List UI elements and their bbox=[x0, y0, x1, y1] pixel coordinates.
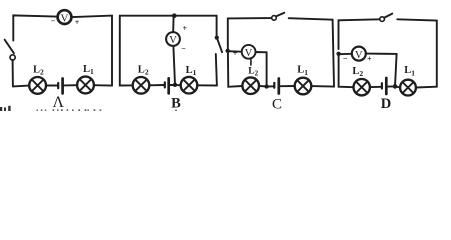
wire C junction to battery bbox=[267, 85, 274, 87]
label + (voltmeter C positive) bbox=[233, 49, 238, 58]
battery (circuit D): short plate bbox=[381, 83, 383, 88]
svg-text:−: − bbox=[343, 54, 348, 63]
wire B right edge lower bbox=[216, 54, 217, 86]
svg-text:L1: L1 bbox=[404, 65, 415, 77]
wire D left edge lower and bottom-left bbox=[339, 55, 354, 87]
wire B voltmeter drop bbox=[172, 16, 174, 32]
svg-text:D: D bbox=[381, 96, 391, 111]
label L1 (circuit A) bbox=[83, 64, 94, 76]
voltmeter V (circuit D) bbox=[352, 47, 366, 61]
node (circuit C left-edge junction) bbox=[226, 49, 230, 53]
svg-text:L1: L1 bbox=[186, 65, 197, 77]
svg-text:+: + bbox=[75, 18, 80, 27]
svg-text:V: V bbox=[355, 50, 363, 61]
svg-text:L1: L1 bbox=[83, 64, 94, 76]
wire B junction to L1 bbox=[170, 84, 180, 86]
label L1 (circuit B) bbox=[186, 65, 197, 77]
wire D top-right segment and right edge bbox=[397, 19, 437, 86]
svg-text:V: V bbox=[169, 35, 177, 46]
wire C top-right segment and right edge bbox=[289, 18, 334, 86]
wire D junction to voltmeter bbox=[339, 53, 352, 55]
node (circuit C bottom junction) bbox=[264, 84, 268, 88]
battery (circuit A): short plate bbox=[57, 83, 59, 88]
battery (circuit B): short plate bbox=[164, 82, 166, 87]
wire A between L2 and battery bbox=[46, 85, 58, 87]
svg-text:C: C bbox=[272, 96, 282, 111]
svg-text:−: − bbox=[51, 17, 56, 26]
svg-text:L1: L1 bbox=[297, 65, 308, 77]
wire B top with junction bbox=[120, 16, 217, 40]
svg-text:L2: L2 bbox=[248, 66, 258, 77]
wire A left edge lower bbox=[12, 60, 14, 86]
wire D voltmeter to bottom junction bbox=[366, 54, 396, 87]
switch S (circuit B, open, on right edge) bbox=[215, 36, 222, 53]
label B (circuit letter) bbox=[171, 95, 181, 111]
battery (circuit A): long plate bbox=[61, 79, 64, 94]
switch S (circuit D, open, on top edge) bbox=[380, 14, 392, 22]
lamp L1 (circuit B) bbox=[181, 77, 198, 94]
label D (circuit letter) bbox=[381, 96, 391, 112]
svg-text:+: + bbox=[233, 49, 238, 58]
wire B bottom-right bbox=[197, 84, 217, 86]
lamp L1 (circuit D) bbox=[400, 80, 416, 96]
wire D bottom-right bbox=[416, 86, 437, 89]
wire D battery to junction bbox=[388, 85, 395, 87]
label L1 (circuit C) bbox=[297, 65, 308, 77]
battery (circuit C): long plate bbox=[277, 79, 280, 94]
voltmeter V (circuit C) bbox=[242, 45, 256, 59]
wire A bottom-right bbox=[94, 84, 112, 86]
svg-text:L2: L2 bbox=[352, 66, 363, 78]
label - (voltmeter B negative) bbox=[181, 44, 186, 53]
wire C bottom-right bbox=[311, 85, 334, 88]
label - (voltmeter D negative) bbox=[343, 54, 348, 63]
lamp L2 (circuit B) bbox=[133, 77, 150, 94]
label A (circuit letter) bbox=[53, 94, 65, 111]
svg-text:V: V bbox=[61, 12, 69, 24]
wire C between L2 and junction bbox=[259, 85, 267, 88]
svg-text:+: + bbox=[183, 24, 188, 33]
voltmeter V (circuit A) bbox=[58, 10, 72, 24]
svg-text:+: + bbox=[367, 55, 372, 64]
wire D junction to L1 bbox=[395, 86, 400, 87]
wire A top-right segment and right edge bbox=[73, 16, 112, 86]
svg-text:L2: L2 bbox=[33, 65, 44, 77]
label - (voltmeter A negative) bbox=[51, 17, 56, 26]
label + (voltmeter B positive) bbox=[183, 24, 188, 33]
wire D top-left segment bbox=[339, 19, 380, 49]
battery (circuit B): long plate bbox=[167, 78, 170, 93]
switch S (circuit A, open, on left edge) bbox=[5, 40, 16, 60]
wire C top-left segment bbox=[228, 18, 272, 44]
node (circuit B bottom junction) bbox=[173, 83, 177, 87]
svg-text:V: V bbox=[245, 48, 253, 59]
lamp L1 (circuit A) bbox=[77, 77, 94, 94]
node (circuit B top junction) bbox=[172, 13, 177, 18]
label L2 (circuit B) bbox=[138, 64, 149, 76]
label C (circuit letter) bbox=[272, 96, 282, 112]
wire A top-left segment bbox=[13, 15, 56, 40]
label L2 (circuit D) bbox=[352, 66, 363, 78]
lamp L1 (circuit C) bbox=[295, 78, 312, 95]
svg-text:B: B bbox=[171, 95, 181, 111]
label + (voltmeter D positive) bbox=[367, 55, 372, 64]
label - (voltmeter C negative) bbox=[256, 49, 261, 58]
node (circuit D left-edge junction) bbox=[336, 52, 340, 56]
wire B voltmeter to bottom junction bbox=[173, 46, 175, 84]
wire D between L2 and battery bbox=[370, 86, 382, 88]
svg-text:Λ: Λ bbox=[53, 94, 65, 111]
label L2 (circuit A) bbox=[33, 65, 44, 77]
lamp L2 (circuit C) bbox=[242, 77, 259, 94]
svg-text:L2: L2 bbox=[138, 64, 149, 76]
label L1 (circuit D) bbox=[404, 65, 415, 77]
wire C between battery and L1 bbox=[280, 85, 294, 87]
svg-text:−: − bbox=[181, 44, 186, 53]
lamp L2 (circuit A) bbox=[29, 77, 46, 94]
voltmeter V (circuit B) bbox=[166, 32, 180, 46]
wire B left edge lower and bottom-left bbox=[120, 40, 133, 86]
label L2 (circuit C) bbox=[248, 66, 258, 77]
wire C left edge lower and bottom-left bbox=[228, 44, 242, 87]
switch S (circuit C, open, on top edge) bbox=[272, 13, 285, 20]
svg-text:−: − bbox=[256, 49, 261, 58]
node (circuit D bottom junction) bbox=[393, 84, 398, 89]
wire stub below voltmeter C bbox=[250, 60, 252, 66]
wire C voltmeter to bottom junction bbox=[256, 52, 267, 87]
battery (circuit D): long plate bbox=[385, 78, 388, 94]
wire A bottom-left bbox=[13, 85, 29, 88]
scan artifact marks: cropped caption glyph tops along bottom-left edge bbox=[0, 106, 177, 111]
wire B between L2 and battery bbox=[149, 84, 164, 86]
lamp L2 (circuit D) bbox=[354, 79, 370, 95]
wire C junction to voltmeter bbox=[228, 50, 242, 53]
wire A between battery and L1 bbox=[64, 84, 77, 86]
battery (circuit C): short plate bbox=[273, 83, 275, 88]
label + (voltmeter A positive) bbox=[75, 18, 80, 27]
